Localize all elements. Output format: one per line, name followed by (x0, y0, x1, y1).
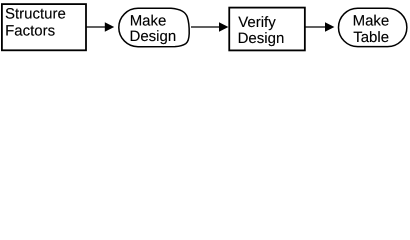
arrow 3 shaft (305, 26, 326, 28)
svg-text:Design: Design (238, 30, 285, 47)
svg-text:Structure: Structure (5, 6, 66, 23)
svg-text:Make: Make (130, 12, 167, 29)
arrow 3 head (325, 22, 334, 31)
arrow 2 shaft (191, 26, 219, 28)
svg-text:Design: Design (130, 28, 177, 45)
svg-text:Factors: Factors (5, 22, 55, 39)
label "Structure Factors" (5, 6, 66, 40)
arrow 1 head (105, 22, 114, 31)
arrow 2 head (219, 22, 228, 31)
label "Verify Design" (238, 14, 285, 47)
terminator "Make Design" (119, 8, 189, 46)
process box "Structure Factors" (2, 4, 86, 50)
svg-text:Make: Make (353, 13, 390, 30)
arrow 1 shaft (86, 26, 105, 28)
svg-text:Verify: Verify (238, 14, 276, 31)
svg-text:Table: Table (353, 29, 389, 46)
label "Make Table" (353, 13, 390, 46)
label "Make Design" (130, 12, 177, 45)
terminator "Make Table" (339, 8, 407, 46)
process box "Verify Design" (229, 8, 305, 51)
